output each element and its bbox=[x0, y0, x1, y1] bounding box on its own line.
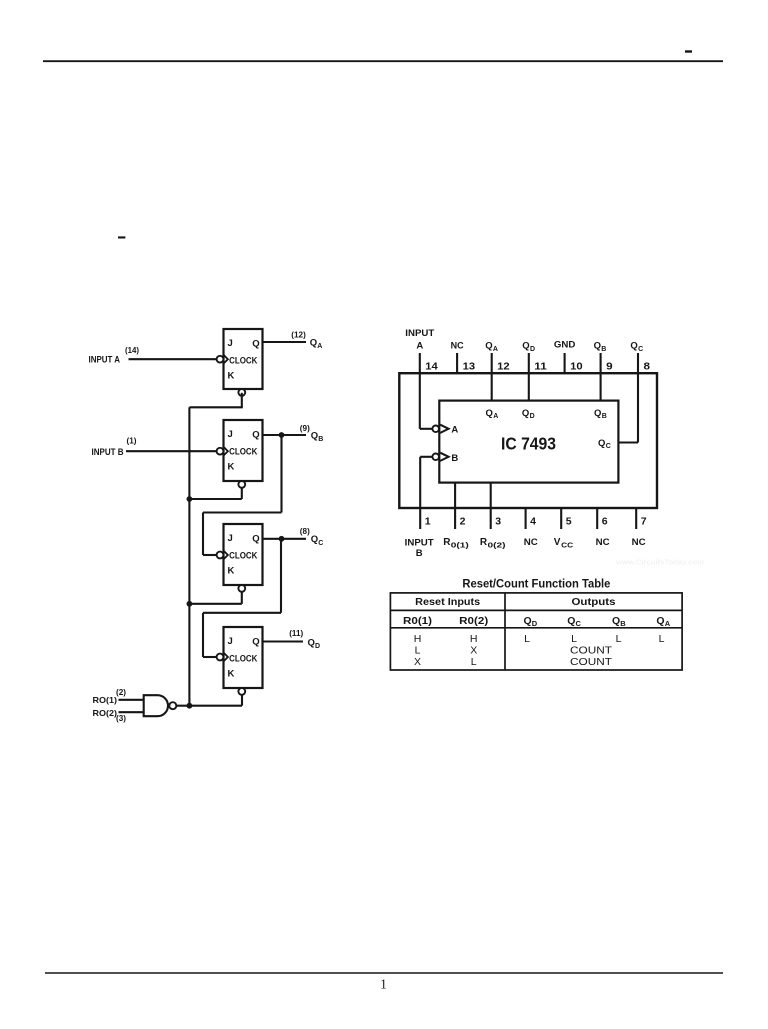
svg-text:L: L bbox=[616, 633, 622, 645]
svg-text:Q: Q bbox=[656, 615, 664, 627]
clear bubble FF4 (Q_D) bbox=[238, 688, 245, 695]
label R0(1) bbox=[93, 695, 118, 705]
table data row 2 bbox=[415, 645, 613, 657]
net label QB bbox=[311, 430, 324, 443]
pin 12 stub bbox=[491, 353, 493, 373]
svg-text:11: 11 bbox=[534, 361, 547, 373]
pin 11 label QD bbox=[522, 341, 535, 353]
wire INPUT B to FF2 clock bbox=[126, 450, 217, 452]
pin 1 stub bbox=[419, 508, 421, 529]
svg-text:CLOCK: CLOCK bbox=[229, 355, 258, 365]
B input bubble bbox=[432, 454, 439, 461]
IC package outline bbox=[399, 373, 657, 508]
A input chevron and label bbox=[440, 425, 458, 436]
pin label (14) bbox=[125, 345, 139, 355]
pin 8 stub bbox=[637, 353, 639, 373]
svg-text:B: B bbox=[451, 453, 458, 464]
pin 4 stub bbox=[525, 508, 527, 529]
clear bubble FF3 (Q_C) bbox=[238, 585, 245, 592]
svg-text:Q: Q bbox=[594, 408, 601, 419]
svg-text:Q: Q bbox=[308, 637, 315, 648]
net label QA bbox=[310, 337, 323, 350]
footer rule bbox=[45, 972, 723, 974]
svg-text:L: L bbox=[471, 656, 477, 668]
pin 7 label NC bbox=[632, 537, 646, 548]
svg-text:0(2): 0(2) bbox=[488, 540, 507, 549]
svg-text:Q: Q bbox=[252, 429, 259, 440]
junction QC node bbox=[279, 536, 285, 542]
pin 8 number bbox=[644, 361, 651, 373]
svg-text:Q: Q bbox=[524, 615, 532, 627]
svg-text:(9): (9) bbox=[300, 423, 310, 433]
svg-text:(1): (1) bbox=[127, 436, 137, 446]
clock input bubble FF1 (Q_A) bbox=[217, 356, 224, 363]
pin 2 label R0(1) bbox=[443, 537, 469, 549]
faint watermark bbox=[615, 558, 704, 567]
svg-text:COUNT: COUNT bbox=[570, 656, 613, 668]
svg-text:R0(2): R0(2) bbox=[459, 616, 488, 627]
svg-text:(2): (2) bbox=[116, 687, 126, 697]
svg-text:A: A bbox=[416, 340, 423, 351]
pin 6 label NC bbox=[596, 537, 610, 548]
svg-text:H: H bbox=[470, 633, 478, 645]
svg-text:4: 4 bbox=[530, 515, 536, 527]
wire QB to FF3 clock bbox=[203, 435, 282, 555]
QB label inside bbox=[594, 408, 607, 420]
net label QD bbox=[308, 637, 321, 650]
pin 8 label QC bbox=[630, 341, 643, 353]
B input chevron and label bbox=[440, 453, 458, 464]
table data row 3 bbox=[414, 656, 613, 668]
svg-text:J: J bbox=[228, 636, 233, 647]
svg-text:CLOCK: CLOCK bbox=[229, 550, 258, 560]
svg-text:Q: Q bbox=[630, 341, 637, 352]
wire pin11 to QD bbox=[528, 373, 530, 400]
svg-text:(8): (8) bbox=[300, 526, 310, 536]
svg-text:Q: Q bbox=[485, 341, 492, 352]
header Outputs bbox=[572, 596, 616, 608]
pin 7 number bbox=[641, 515, 647, 527]
svg-text:B: B bbox=[602, 413, 607, 420]
clock input bubble FF4 (Q_D) bbox=[217, 654, 224, 661]
clock input bubble FF2 (Q_B) bbox=[217, 448, 224, 455]
svg-text:A: A bbox=[317, 343, 322, 350]
header R0(2) bbox=[459, 616, 488, 627]
header Reset Inputs bbox=[415, 596, 480, 608]
svg-text:CLOCK: CLOCK bbox=[229, 446, 258, 456]
pin 9 stub bbox=[600, 353, 602, 373]
pin 10 label GND bbox=[554, 340, 576, 351]
svg-text:D: D bbox=[530, 346, 535, 353]
svg-text:CC: CC bbox=[561, 540, 574, 549]
svg-text:8: 8 bbox=[644, 361, 651, 373]
svg-text:D: D bbox=[532, 619, 538, 628]
pin 9 number bbox=[606, 361, 613, 373]
pin 6 number bbox=[602, 515, 608, 527]
wire pin9 to QB bbox=[600, 373, 602, 400]
pin 3 stub bbox=[490, 508, 492, 529]
svg-text:INPUT A: INPUT A bbox=[89, 355, 121, 365]
label R0(2) bbox=[93, 708, 118, 718]
wire R0(2) to NAND input bbox=[119, 711, 145, 713]
svg-text:(3): (3) bbox=[116, 713, 126, 723]
QD label inside bbox=[522, 408, 535, 420]
IC 7493 body bbox=[439, 401, 618, 483]
pin 13 number bbox=[463, 361, 476, 373]
pin label (8) bbox=[300, 526, 310, 536]
svg-text:NC: NC bbox=[524, 537, 538, 548]
svg-text:J: J bbox=[228, 338, 233, 349]
svg-text:Q: Q bbox=[252, 533, 259, 544]
header QD bbox=[524, 615, 538, 628]
svg-text:J: J bbox=[228, 533, 233, 544]
table data row 1 bbox=[414, 633, 665, 645]
svg-text:2: 2 bbox=[460, 515, 466, 527]
svg-text:C: C bbox=[606, 443, 611, 450]
header QB bbox=[612, 615, 626, 628]
svg-text:5: 5 bbox=[566, 515, 572, 527]
pin 14 stub bbox=[419, 353, 421, 373]
pin 6 stub bbox=[596, 508, 598, 529]
pin 1 label INPUT B bbox=[405, 537, 434, 558]
svg-text:Q: Q bbox=[486, 408, 493, 419]
junction reset at FF3 branch bbox=[187, 601, 193, 607]
svg-text:NC: NC bbox=[451, 341, 464, 352]
svg-text:B: B bbox=[601, 346, 606, 353]
svg-text:CLOCK: CLOCK bbox=[229, 653, 258, 663]
svg-text:INPUT: INPUT bbox=[405, 537, 434, 548]
function table frame bbox=[390, 593, 682, 670]
pin 4 label NC bbox=[524, 537, 538, 548]
svg-text:J: J bbox=[228, 429, 233, 440]
pin 5 number bbox=[566, 515, 572, 527]
svg-text:Q: Q bbox=[612, 615, 620, 627]
svg-text:K: K bbox=[228, 461, 235, 472]
pin 7 stub bbox=[635, 508, 637, 529]
svg-text:14: 14 bbox=[425, 361, 438, 373]
svg-text:Q: Q bbox=[252, 338, 259, 349]
svg-text:Q: Q bbox=[567, 615, 575, 627]
table title bbox=[462, 579, 610, 591]
svg-text:12: 12 bbox=[497, 361, 510, 373]
svg-text:B: B bbox=[620, 619, 626, 628]
wire reset rail vertical bbox=[188, 407, 190, 705]
svg-text:B: B bbox=[416, 548, 423, 559]
clock input bubble FF3 (Q_C) bbox=[217, 552, 224, 559]
svg-text:A: A bbox=[451, 425, 458, 436]
svg-text:L: L bbox=[524, 633, 530, 645]
svg-text:H: H bbox=[414, 633, 422, 645]
NAND output bubble bbox=[169, 702, 176, 709]
svg-text:Reset/Count Function Table: Reset/Count Function Table bbox=[462, 579, 610, 591]
pin 5 label VCC bbox=[554, 537, 574, 549]
svg-text:Q: Q bbox=[594, 341, 601, 352]
svg-text:6: 6 bbox=[602, 515, 608, 527]
svg-text:RO(2): RO(2) bbox=[93, 708, 118, 718]
svg-text:K: K bbox=[228, 370, 235, 381]
pin 10 number bbox=[570, 361, 583, 373]
svg-text:K: K bbox=[228, 565, 235, 576]
wire pin14 INPUT A to A input bbox=[420, 373, 432, 429]
pin 2 stub bbox=[454, 508, 456, 529]
svg-text:(12): (12) bbox=[291, 330, 306, 340]
svg-text:C: C bbox=[318, 540, 323, 547]
header QA bbox=[656, 615, 670, 628]
pin 2 number bbox=[460, 515, 466, 527]
flip-flop FF4 (Q_D) bbox=[224, 627, 263, 688]
svg-text:1: 1 bbox=[425, 515, 431, 527]
svg-text:D: D bbox=[530, 413, 535, 420]
pin 5 stub bbox=[560, 508, 562, 529]
svg-text:A: A bbox=[665, 619, 671, 628]
svg-text:L: L bbox=[415, 645, 421, 657]
wire pin12 to QA bbox=[491, 373, 493, 400]
svg-text:V: V bbox=[554, 537, 561, 548]
pin label (9) bbox=[300, 423, 310, 433]
svg-text:GND: GND bbox=[554, 340, 576, 351]
wire FF3 Q to QC terminal bbox=[263, 538, 307, 540]
pin 1 number bbox=[425, 515, 431, 527]
wire pin2 to R0(1) bbox=[454, 483, 456, 508]
header R0(1) bbox=[403, 616, 432, 627]
svg-text:Outputs: Outputs bbox=[572, 596, 616, 608]
svg-text:X: X bbox=[414, 656, 421, 668]
wire FF2 Q to QB terminal bbox=[263, 434, 307, 436]
clear bubble FF2 (Q_B) bbox=[238, 481, 245, 488]
svg-text:B: B bbox=[318, 436, 323, 443]
page number 1 bbox=[380, 977, 387, 992]
pin 12 label QA bbox=[485, 341, 498, 353]
label INPUT A bbox=[89, 355, 121, 365]
wire R0(1) to NAND input bbox=[119, 699, 145, 701]
svg-text:Q: Q bbox=[311, 430, 318, 441]
svg-text:10: 10 bbox=[570, 361, 583, 373]
header rule bbox=[43, 60, 723, 62]
svg-text:Q: Q bbox=[310, 337, 317, 348]
svg-text:NC: NC bbox=[632, 537, 646, 548]
svg-text:13: 13 bbox=[463, 361, 476, 373]
NAND gate G1 bbox=[144, 695, 168, 716]
wire pin1 INPUT B to B input bbox=[420, 457, 432, 508]
wire pin3 to R0(2) bbox=[490, 483, 492, 508]
svg-text:L: L bbox=[571, 633, 577, 645]
svg-text:Q: Q bbox=[311, 534, 318, 545]
svg-text:K: K bbox=[228, 668, 235, 679]
pin 13 label NC bbox=[451, 341, 464, 352]
svg-text:0(1): 0(1) bbox=[451, 540, 470, 549]
svg-text:A: A bbox=[493, 413, 498, 420]
pin label (1) bbox=[127, 436, 137, 446]
svg-text:Q: Q bbox=[522, 341, 529, 352]
wire reset rail to FF2 clear bbox=[189, 488, 241, 499]
junction reset at FF2 branch bbox=[187, 496, 193, 502]
pin 10 stub bbox=[564, 353, 566, 373]
stray dash mark left bbox=[118, 236, 125, 238]
svg-text:www.CircuitsToday.com: www.CircuitsToday.com bbox=[615, 558, 704, 567]
pin 9 label QB bbox=[594, 341, 607, 353]
svg-text:A: A bbox=[493, 346, 498, 353]
svg-text:R0(1): R0(1) bbox=[403, 616, 432, 627]
svg-text:Reset Inputs: Reset Inputs bbox=[415, 596, 480, 608]
svg-text:D: D bbox=[315, 643, 320, 650]
wire INPUT A to FF1 clock bbox=[129, 358, 217, 360]
svg-text:7: 7 bbox=[641, 515, 647, 527]
svg-text:IC 7493: IC 7493 bbox=[501, 434, 556, 454]
pin 4 number bbox=[530, 515, 536, 527]
svg-text:Q: Q bbox=[252, 636, 259, 647]
svg-text:(14): (14) bbox=[125, 345, 139, 355]
label INPUT B bbox=[92, 447, 124, 457]
junction reset at NAND output bbox=[187, 703, 193, 709]
wire pin8 to QC bbox=[618, 373, 638, 442]
header dash mark bbox=[685, 50, 692, 52]
header QC bbox=[567, 615, 581, 628]
svg-text:INPUT B: INPUT B bbox=[92, 447, 124, 457]
wire NAND output to reset rail and FF4 clear bbox=[176, 695, 242, 706]
wire FF4 Q to QD terminal bbox=[263, 640, 304, 642]
svg-text:C: C bbox=[638, 346, 643, 353]
svg-text:C: C bbox=[576, 619, 582, 628]
junction QB node bbox=[279, 432, 285, 438]
pin 11 number bbox=[534, 361, 547, 373]
pin 11 stub bbox=[528, 353, 530, 373]
wire reset rail to FF3 clear bbox=[189, 592, 241, 603]
svg-text:COUNT: COUNT bbox=[570, 645, 613, 657]
QA label inside bbox=[486, 408, 499, 420]
wire QC to FF4 clock bbox=[203, 539, 281, 657]
pin label (11) bbox=[289, 628, 303, 638]
svg-text:1: 1 bbox=[380, 977, 387, 992]
svg-text:Q: Q bbox=[522, 408, 529, 419]
svg-text:RO(1): RO(1) bbox=[93, 695, 118, 705]
svg-text:L: L bbox=[659, 633, 665, 645]
net label QC bbox=[311, 534, 324, 547]
pin label (12) bbox=[291, 330, 306, 340]
svg-text:9: 9 bbox=[606, 361, 613, 373]
svg-text:(11): (11) bbox=[289, 628, 303, 638]
wire FF1 Q to QA terminal bbox=[263, 341, 307, 343]
pin 3 label R0(2) bbox=[480, 537, 506, 549]
clear bubble FF1 (Q_A) bbox=[238, 389, 245, 396]
pin label (2) bbox=[116, 687, 126, 697]
svg-text:INPUT: INPUT bbox=[405, 328, 434, 339]
svg-text:3: 3 bbox=[495, 515, 501, 527]
pin 14 number bbox=[425, 361, 438, 373]
flip-flop FF2 (Q_B) bbox=[224, 420, 263, 481]
svg-text:X: X bbox=[470, 645, 477, 657]
QC label inside bbox=[598, 438, 611, 450]
svg-text:NC: NC bbox=[596, 537, 610, 548]
A input bubble bbox=[432, 426, 439, 433]
pin 13 stub bbox=[456, 353, 458, 373]
pin 12 number bbox=[497, 361, 510, 373]
pin label (3) bbox=[116, 713, 126, 723]
wire FF1 clear stem to reset rail bbox=[189, 393, 242, 408]
svg-text:Q: Q bbox=[598, 438, 605, 449]
pin 3 number bbox=[495, 515, 501, 527]
flip-flop FF1 (Q_A) bbox=[224, 329, 263, 389]
flip-flop FF3 (Q_C) bbox=[224, 524, 263, 585]
pin 14 label INPUT A bbox=[405, 328, 434, 352]
